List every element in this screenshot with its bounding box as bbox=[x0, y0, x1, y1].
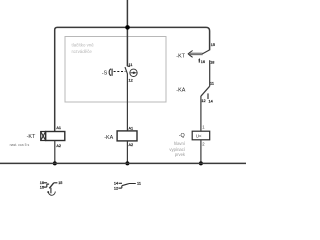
svg-text:rozváděče: rozváděče bbox=[72, 49, 93, 54]
svg-text:11: 11 bbox=[210, 81, 214, 85]
svg-text:A1: A1 bbox=[129, 126, 134, 130]
svg-text:A2: A2 bbox=[129, 143, 134, 147]
svg-text:U<: U< bbox=[196, 134, 202, 139]
svg-text:15: 15 bbox=[211, 43, 215, 47]
svg-text:16: 16 bbox=[201, 60, 205, 64]
svg-text:15: 15 bbox=[58, 181, 62, 185]
svg-text:11: 11 bbox=[129, 63, 133, 67]
svg-text:11: 11 bbox=[137, 181, 141, 185]
svg-text:16: 16 bbox=[40, 186, 44, 190]
svg-text:nast. cca 5 s: nast. cca 5 s bbox=[10, 143, 30, 147]
svg-text:-KA: -KA bbox=[176, 87, 185, 93]
svg-text:14: 14 bbox=[114, 182, 118, 186]
svg-text:12: 12 bbox=[114, 187, 118, 191]
svg-text:-S: -S bbox=[102, 70, 108, 76]
svg-text:14: 14 bbox=[209, 99, 213, 103]
svg-text:12: 12 bbox=[129, 78, 133, 82]
svg-text:prvek: prvek bbox=[175, 152, 186, 157]
svg-text:-KT: -KT bbox=[27, 134, 36, 140]
svg-text:tlačítko vně: tlačítko vně bbox=[72, 42, 95, 47]
svg-text:hlavní: hlavní bbox=[174, 141, 186, 146]
svg-text:A2: A2 bbox=[56, 144, 61, 148]
svg-text:-Q: -Q bbox=[179, 133, 185, 139]
svg-text:-KT: -KT bbox=[176, 54, 185, 60]
svg-text:vypínací: vypínací bbox=[169, 147, 185, 152]
svg-text:18: 18 bbox=[210, 61, 214, 65]
svg-text:-KA: -KA bbox=[104, 135, 113, 141]
svg-text:18: 18 bbox=[40, 181, 44, 185]
svg-text:12: 12 bbox=[201, 99, 205, 103]
svg-text:A1: A1 bbox=[56, 126, 61, 130]
